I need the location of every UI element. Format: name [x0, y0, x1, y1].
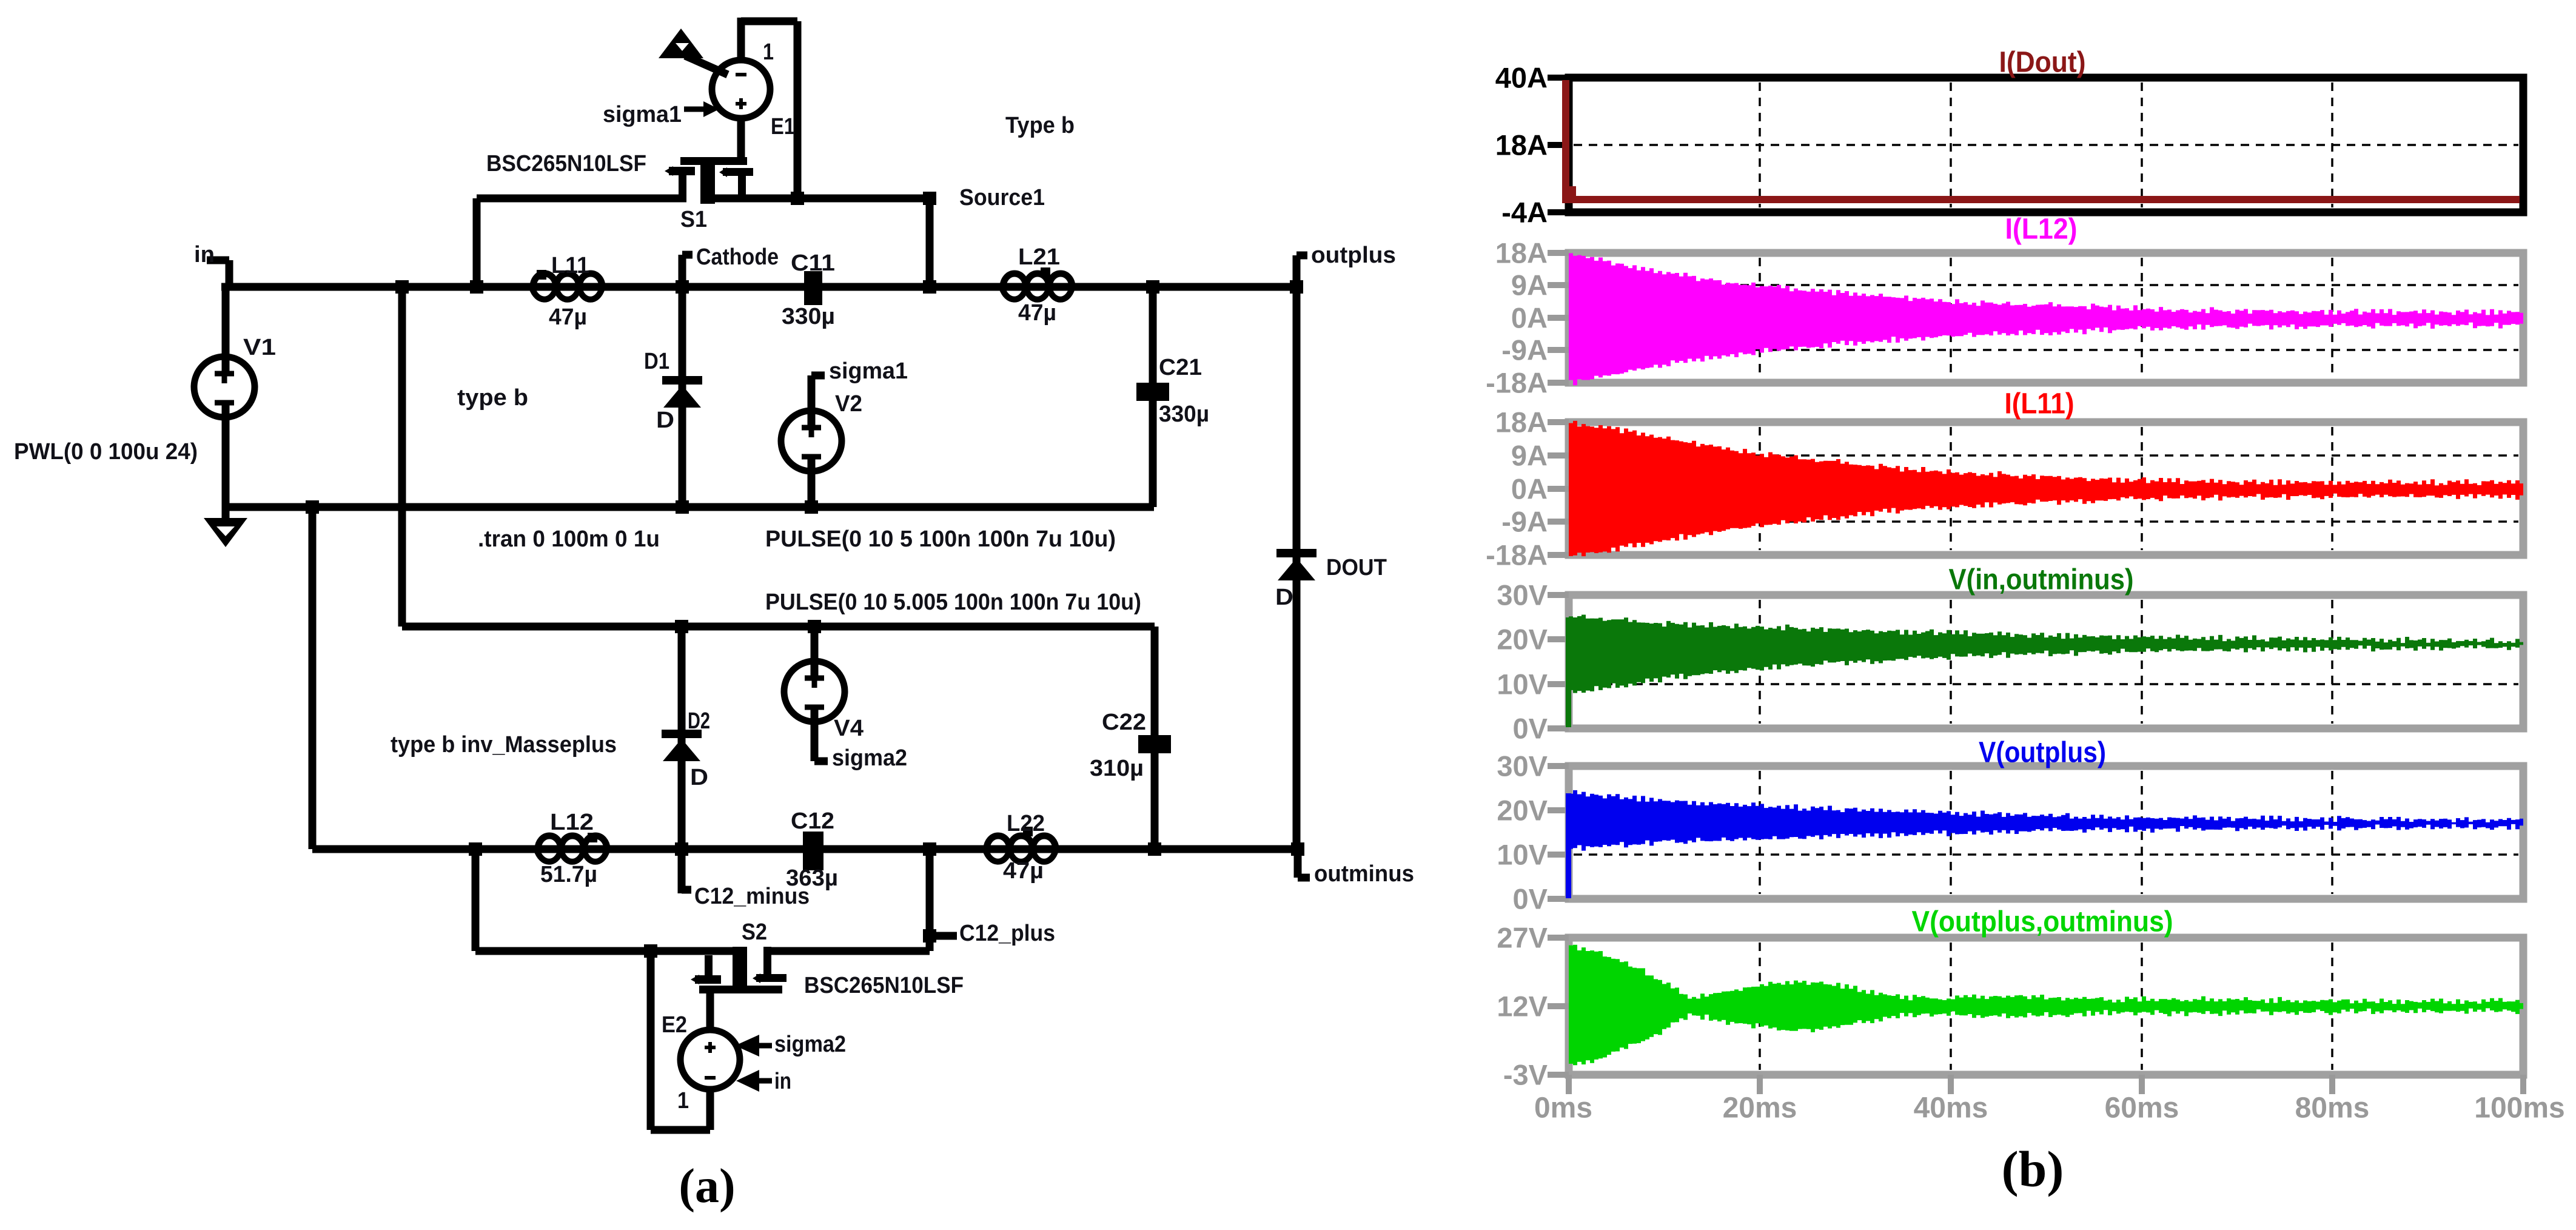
wire: V4 top — [811, 627, 819, 680]
wire: V2 bottom — [808, 455, 816, 507]
switch S2 (MOSFET model BSC265N10LSF) — [699, 986, 782, 993]
svg-text:I(Dout): I(Dout) — [1999, 47, 2086, 79]
svg-text:20V: 20V — [1497, 623, 1548, 656]
svg-text:I(L12): I(L12) — [2005, 213, 2078, 246]
junction: row A / V4 — [808, 620, 821, 633]
svg-text:type b: type b — [457, 385, 528, 411]
svg-text:-4A: -4A — [1501, 197, 1548, 229]
svg-text:0V: 0V — [1513, 713, 1548, 745]
diode D2 — [662, 730, 702, 738]
wire: C12_minus stub — [678, 849, 686, 893]
svg-text:30V: 30V — [1497, 750, 1548, 782]
svg-text:V(outplus,outminus): V(outplus,outminus) — [1912, 906, 2173, 938]
svg-text:20V: 20V — [1497, 795, 1548, 827]
junction: row B / D2 — [675, 842, 688, 856]
svg-text:C21: C21 — [1159, 355, 1202, 380]
svg-text:100ms: 100ms — [2474, 1092, 2564, 1124]
svg-text:S1: S1 — [680, 207, 707, 232]
svg-text:C22: C22 — [1102, 710, 1146, 735]
switch S1 (MOSFET model BSC265N10LSF) — [680, 157, 747, 165]
wire: C21 branch — [1149, 287, 1157, 507]
pulse source V2 — [781, 411, 842, 471]
svg-text:V1: V1 — [243, 335, 276, 360]
svg-text:D2: D2 — [688, 708, 710, 734]
wire: outminus stub — [1294, 849, 1302, 878]
wire: V4 bottom hook to sigma2 — [811, 705, 819, 761]
junction: node Source1 — [923, 192, 936, 205]
junction: ground row / row-B branch — [306, 500, 319, 514]
svg-text:47µ: 47µ — [1003, 858, 1044, 884]
wire: E1 bottom pin to S1 — [737, 118, 745, 161]
wire: in row (net in / L11-C11-L21 rail) — [221, 283, 1296, 291]
svg-text:DOUT: DOUT — [1326, 555, 1387, 580]
inductor L12 — [538, 836, 607, 849]
svg-text:1: 1 — [763, 39, 774, 65]
svg-text:BSC265N10LSF: BSC265N10LSF — [486, 151, 646, 176]
wire: E2 left loop vertical — [647, 951, 655, 1130]
junction: node C12_plus stub — [923, 929, 936, 943]
svg-text:sigma1: sigma1 — [829, 358, 908, 384]
dependent source E2 — [680, 1030, 740, 1089]
wire: lower row B (L12-C12-L22-outminus rail) — [312, 845, 1298, 853]
svg-text:Source1: Source1 — [959, 185, 1045, 210]
wire: V2 top hook to sigma1 — [808, 375, 816, 429]
svg-text:10V: 10V — [1497, 839, 1548, 871]
junction: row B / S2 drop — [469, 842, 482, 856]
wire: C12_plus riser — [926, 849, 934, 951]
svg-text:C12: C12 — [791, 808, 834, 834]
E1 control pin arrow from sigma1 — [684, 107, 708, 112]
svg-text:(a): (a) — [679, 1160, 735, 1213]
svg-text:310µ: 310µ — [1090, 756, 1144, 781]
svg-text:-3V: -3V — [1503, 1059, 1548, 1091]
svg-text:C12_plus: C12_plus — [959, 921, 1055, 946]
svg-text:30V: 30V — [1497, 579, 1548, 611]
svg-text:V(in,outminus): V(in,outminus) — [1949, 564, 2134, 596]
wire: lower row A (D2/V4 top rail) — [402, 623, 1155, 631]
capacitor C11 — [804, 271, 822, 305]
junction: S1 row / E1 loop — [791, 192, 804, 205]
svg-text:E2: E2 — [662, 1012, 687, 1038]
svg-text:V2: V2 — [835, 391, 862, 417]
trace I(L12) — [1569, 254, 2523, 386]
wire: S2 row right segment — [765, 947, 930, 955]
wire: outplus stub — [1293, 255, 1301, 287]
svg-text:18A: 18A — [1495, 237, 1548, 269]
svg-text:Type b: Type b — [1005, 113, 1075, 138]
wire: C22 branch — [1151, 627, 1159, 849]
plot panel 2 frame — [1569, 253, 2523, 383]
svg-text:330µ: 330µ — [782, 304, 835, 329]
svg-text:L21: L21 — [1018, 244, 1060, 270]
junction: S2 row / E2 loop — [644, 944, 657, 958]
wire: E2 bottom loop — [651, 1126, 710, 1134]
svg-text:type b inv_Masseplus: type b inv_Masseplus — [391, 732, 617, 758]
wire: E2 top pin to S2 — [706, 993, 714, 1031]
wire: C12_plus stub — [930, 932, 957, 940]
svg-text:27V: 27V — [1497, 922, 1548, 954]
svg-text:40A: 40A — [1495, 62, 1548, 94]
plot panel 5 frame — [1569, 766, 2523, 899]
trace V(in,outminus) — [1566, 617, 1571, 727]
svg-text:-18A: -18A — [1486, 539, 1548, 571]
plot panel 3 frame — [1569, 422, 2523, 555]
svg-text:PULSE(0 10 5.005 100n 100n 7u: PULSE(0 10 5.005 100n 100n 7u 10u) — [765, 590, 1141, 615]
junction: ground row / V2 — [805, 500, 818, 514]
pulse source V4 — [784, 661, 845, 722]
svg-text:.tran 0 100m 0 1u: .tran 0 100m 0 1u — [478, 526, 660, 552]
svg-text:in: in — [194, 242, 215, 267]
svg-text:sigma2: sigma2 — [774, 1032, 846, 1057]
svg-text:47µ: 47µ — [1018, 300, 1056, 326]
junction: in row / row-A branch — [395, 280, 409, 294]
wire: in flag stub — [207, 257, 229, 264]
svg-text:-9A: -9A — [1501, 334, 1548, 366]
svg-text:sigma2: sigma2 — [832, 745, 907, 771]
svg-text:D1: D1 — [644, 349, 669, 374]
svg-text:outminus: outminus — [1314, 861, 1414, 887]
svg-text:60ms: 60ms — [2105, 1092, 2179, 1124]
svg-text:BSC265N10LSF: BSC265N10LSF — [804, 973, 964, 998]
panel 4 dashed gridlines — [1574, 600, 2518, 724]
plot panel 1 frame — [1569, 78, 2523, 212]
svg-text:C11: C11 — [791, 250, 835, 276]
svg-text:18A: 18A — [1495, 129, 1548, 161]
svg-text:outplus: outplus — [1311, 243, 1396, 268]
junction: node outminus — [1291, 842, 1304, 856]
svg-text:9A: 9A — [1511, 440, 1548, 472]
wire: Source1 drop — [926, 198, 934, 287]
svg-text:E1: E1 — [771, 114, 795, 139]
wire: E1 top loop horizontal — [741, 18, 797, 25]
svg-text:51.7µ: 51.7µ — [540, 862, 597, 887]
svg-text:80ms: 80ms — [2295, 1092, 2370, 1124]
trace V(outplus,outminus) — [1569, 945, 2523, 1066]
junction: in row / Source1 drop — [923, 280, 936, 294]
svg-text:330µ: 330µ — [1159, 402, 1209, 427]
svg-text:-9A: -9A — [1501, 506, 1548, 538]
trace I(L11) — [1569, 421, 2523, 556]
svg-text:L22: L22 — [1007, 811, 1045, 836]
junction: ground row / D1 — [676, 500, 689, 514]
wire: Cathode flag stub — [679, 255, 686, 287]
svg-text:(b): (b) — [2002, 1141, 2064, 1198]
trace I(Dout) — [1566, 80, 2520, 200]
panel 6 dashed gridlines — [1760, 943, 2332, 1070]
svg-text:V(outplus): V(outplus) — [1979, 737, 2106, 769]
junction: node outplus — [1290, 280, 1303, 294]
svg-text:PWL(0 0 100u 24): PWL(0 0 100u 24) — [14, 439, 198, 465]
x axis ticks — [1566, 1075, 1572, 1094]
svg-text:D: D — [690, 765, 708, 790]
wire: E1 top pin — [737, 18, 745, 61]
wire: E2 bottom pin — [706, 1087, 714, 1130]
junction: row B / C12_plus riser — [923, 842, 936, 856]
capacitor C21 — [1136, 383, 1169, 401]
panel 1 dashed gridlines — [1574, 82, 2518, 207]
E2 control pin arrow to in — [736, 1070, 759, 1092]
wire: in net vertical to row A — [398, 287, 406, 627]
svg-text:0A: 0A — [1511, 302, 1548, 334]
svg-text:L12: L12 — [550, 810, 594, 835]
capacitor C12 — [803, 832, 823, 870]
svg-text:40ms: 40ms — [1914, 1092, 1988, 1124]
wire: S1 row left segment — [477, 195, 686, 203]
junction: row B / C22 — [1148, 842, 1161, 856]
inductor L11 — [533, 274, 602, 287]
wire: V1 bottom — [222, 401, 230, 520]
diode D1 — [662, 376, 702, 385]
wire: row B to S2 row vertical — [472, 849, 480, 951]
capacitor C22 — [1138, 735, 1171, 753]
trace V(outplus) — [1566, 793, 1571, 898]
svg-text:1: 1 — [677, 1088, 689, 1114]
wire: D1 branch — [679, 287, 686, 507]
svg-text:9A: 9A — [1511, 269, 1548, 301]
wire: E1 loop right vertical — [794, 21, 802, 198]
svg-text:0A: 0A — [1511, 473, 1548, 505]
ground — [204, 518, 247, 547]
svg-text:D: D — [656, 408, 674, 433]
panel 2 dashed gridlines — [1574, 258, 2518, 378]
svg-text:Cathode: Cathode — [696, 244, 779, 270]
svg-text:18A: 18A — [1495, 406, 1548, 439]
svg-text:sigma1: sigma1 — [603, 102, 682, 127]
svg-text:47µ: 47µ — [549, 304, 587, 330]
svg-text:12V: 12V — [1497, 990, 1548, 1023]
svg-text:0V: 0V — [1513, 883, 1548, 915]
plot panel 6 frame — [1569, 938, 2523, 1075]
E1 output arrow (NE) — [659, 29, 703, 58]
wire: outplus-DOUT-outminus vertical — [1293, 287, 1301, 849]
svg-text:-18A: -18A — [1486, 367, 1548, 399]
svg-text:S2: S2 — [742, 919, 767, 945]
svg-text:20ms: 20ms — [1723, 1092, 1797, 1124]
svg-text:PULSE(0 10 5 100n 100n 7u 10u): PULSE(0 10 5 100n 100n 7u 10u) — [765, 526, 1116, 552]
svg-text:D: D — [1275, 585, 1293, 610]
svg-text:0ms: 0ms — [1534, 1092, 1592, 1124]
svg-text:C12_minus: C12_minus — [694, 884, 810, 909]
wire: V1 top — [222, 287, 230, 374]
wire: S2 row — [475, 947, 742, 955]
plot panel 4 frame — [1569, 595, 2523, 728]
wire: S1 row right segment to Source1 — [700, 195, 930, 203]
svg-text:L11: L11 — [551, 253, 589, 278]
panel 3 dashed gridlines — [1574, 427, 2518, 550]
E2 control pin arrow to sigma2 — [735, 1035, 759, 1057]
junction: in row / C21 branch — [1146, 280, 1159, 294]
op-amp-style dependent source E1 — [712, 60, 770, 118]
svg-text:V4: V4 — [834, 716, 864, 741]
wire: D2 branch — [678, 627, 686, 849]
junction: row A / D2 — [675, 620, 688, 633]
inductor L21 — [1003, 274, 1072, 287]
wire: ground to row B vertical — [309, 507, 317, 849]
voltage source V1 — [194, 357, 255, 417]
svg-text:in: in — [774, 1069, 791, 1094]
svg-text:I(L11): I(L11) — [2005, 388, 2075, 420]
svg-text:10V: 10V — [1497, 668, 1548, 701]
inductor L22 — [987, 836, 1056, 849]
diode DOUT — [1276, 549, 1317, 557]
wire: ground row — [226, 503, 1154, 511]
wire: S1 left drop — [473, 198, 481, 287]
panel 5 dashed gridlines — [1574, 771, 2518, 894]
junction: in row / S1 drop — [470, 280, 483, 294]
junction: node Cathode — [676, 280, 689, 294]
